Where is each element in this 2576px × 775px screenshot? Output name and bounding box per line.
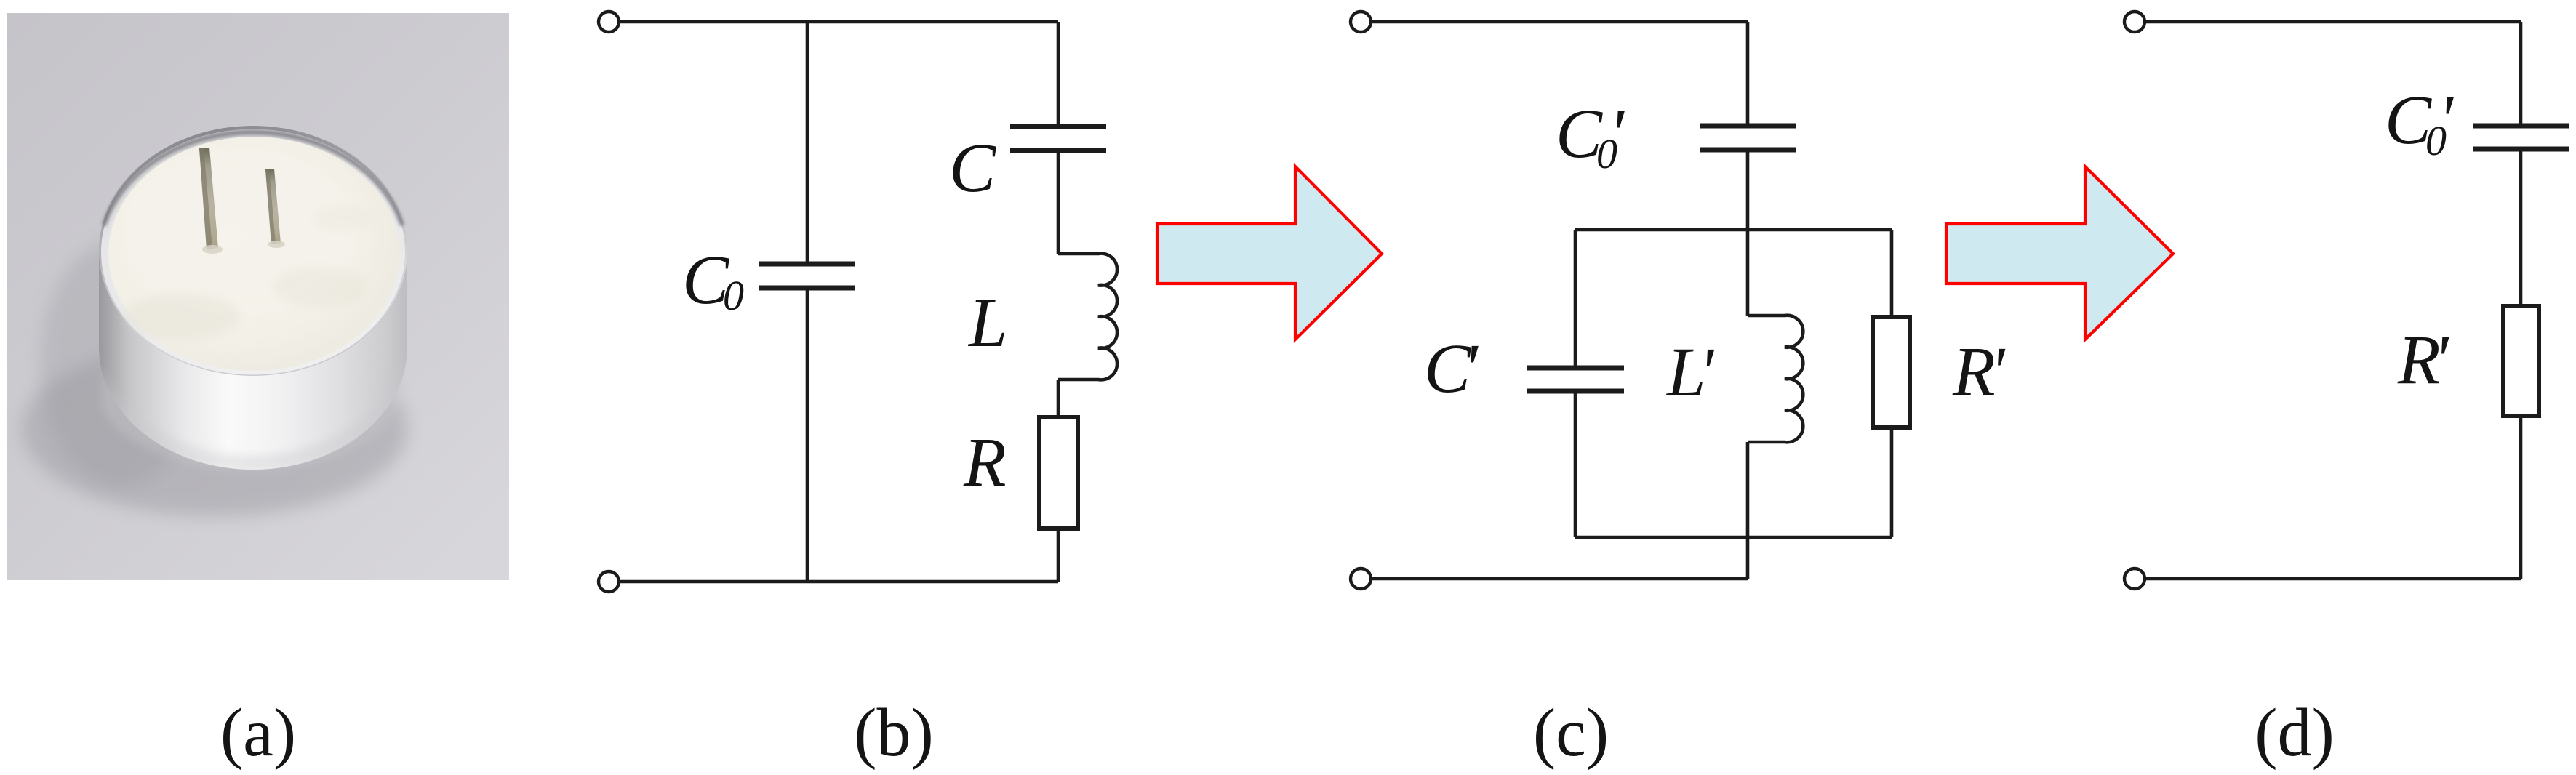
svg-text:L': L': [1665, 333, 1714, 411]
svg-text:L: L: [967, 284, 1007, 361]
svg-text:C0: C0: [682, 241, 744, 319]
svg-text:(d): (d): [2255, 695, 2335, 771]
svg-text:R': R': [1952, 332, 2006, 410]
svg-text:R: R: [963, 423, 1007, 501]
svg-text:C0': C0': [1556, 95, 1625, 177]
svg-text:R': R': [2397, 321, 2449, 398]
svg-text:C0': C0': [2385, 81, 2454, 164]
svg-text:C: C: [949, 129, 996, 206]
svg-text:(a): (a): [220, 695, 296, 771]
svg-text:C': C': [1424, 329, 1479, 407]
svg-text:(c): (c): [1533, 695, 1609, 771]
svg-text:(b): (b): [854, 695, 934, 771]
